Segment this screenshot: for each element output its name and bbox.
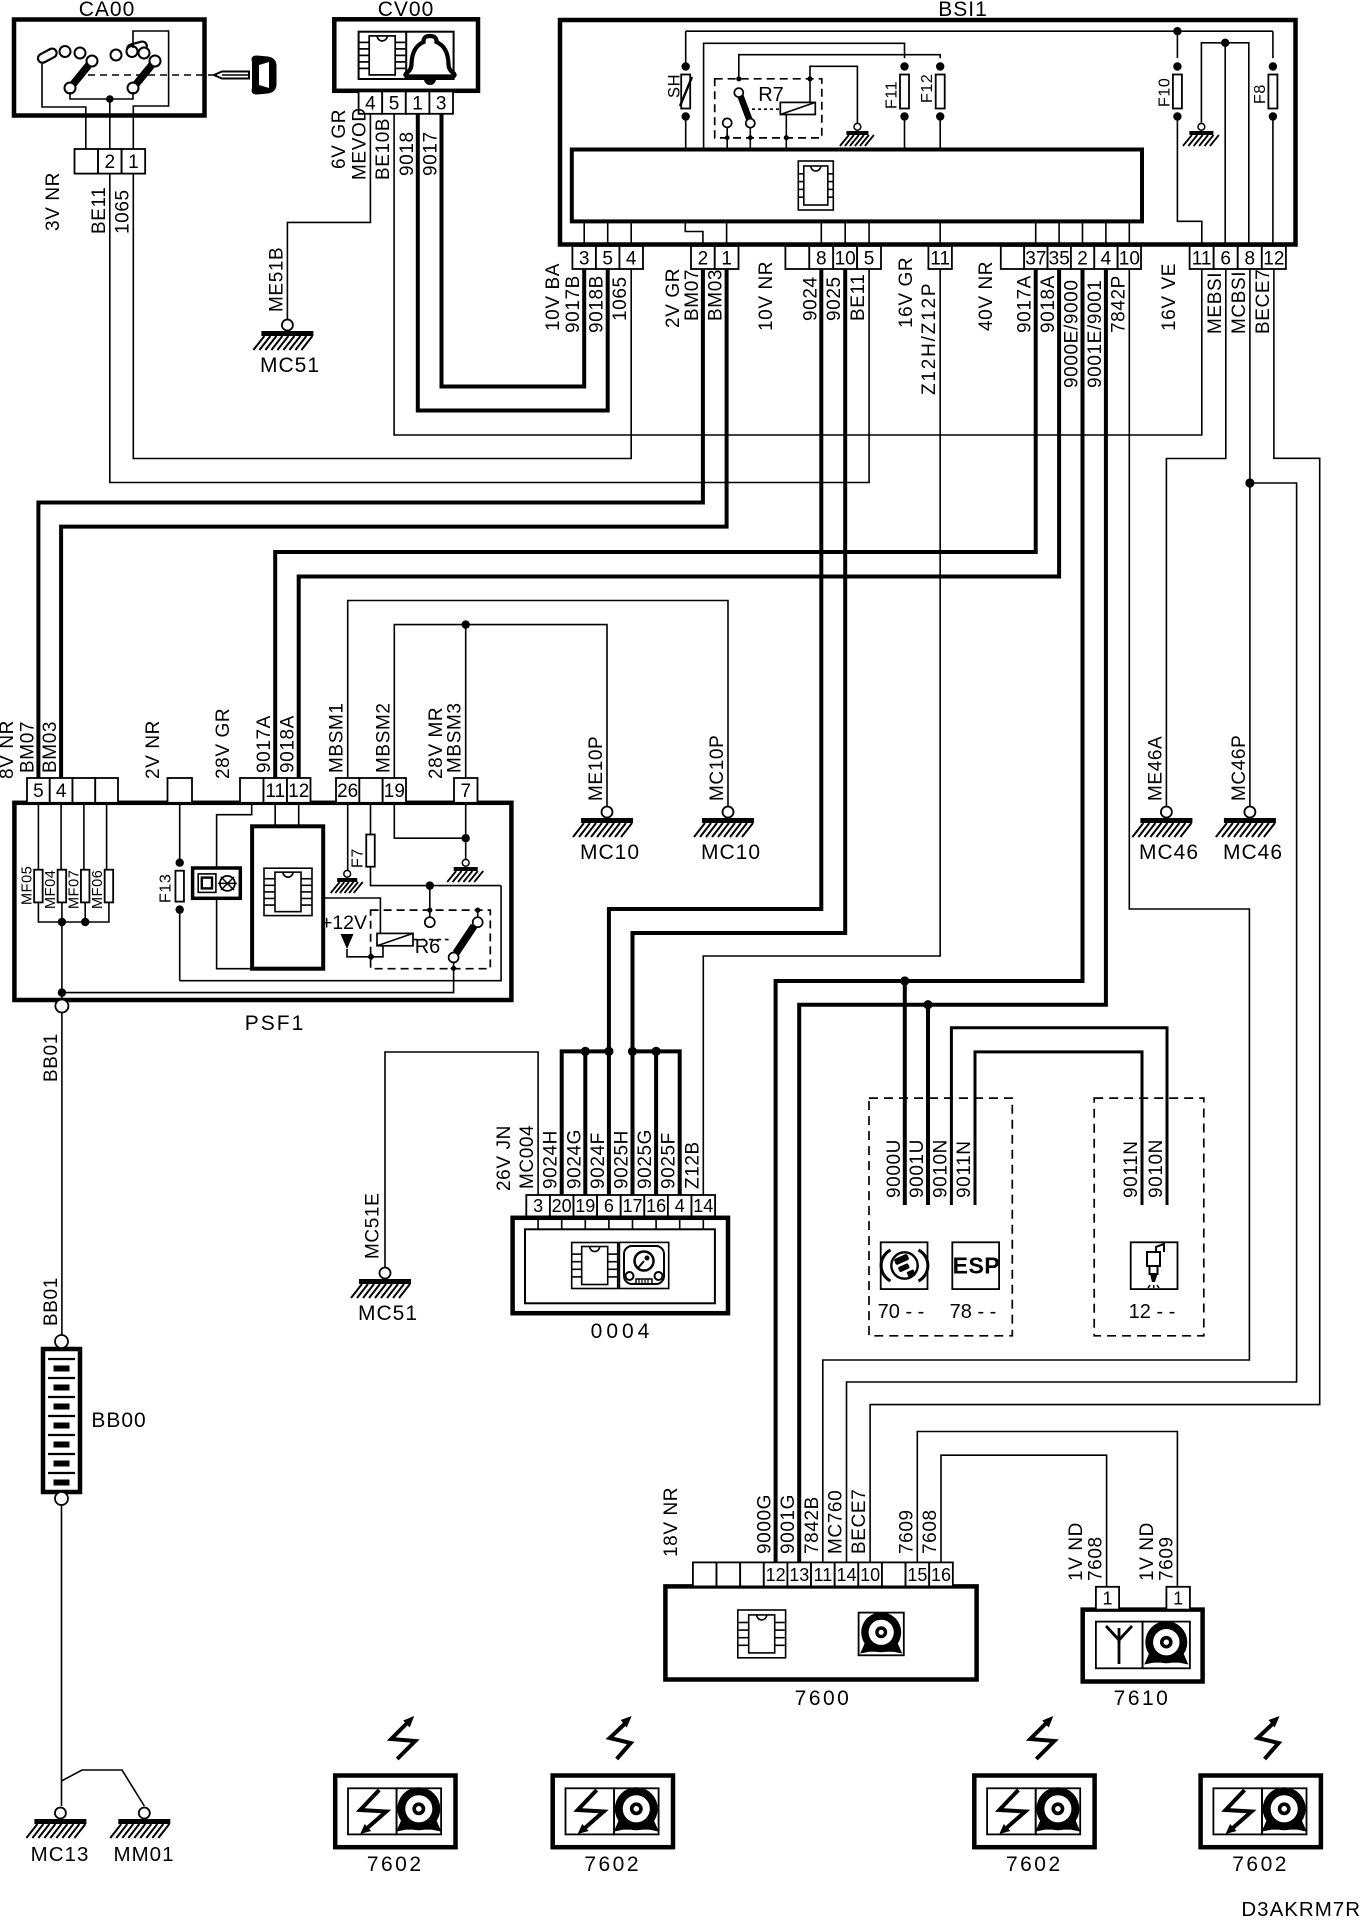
svg-text:MC51: MC51 bbox=[260, 354, 320, 377]
svg-text:1V ND: 1V ND bbox=[1137, 1522, 1158, 1581]
BSI pin stub 11 bbox=[939, 221, 941, 246]
7610 horn icon bbox=[1144, 1650, 1188, 1664]
connector PSF1 pins 26 19 bbox=[336, 778, 359, 803]
svg-text:11: 11 bbox=[814, 1565, 833, 1585]
svg-text:9025F: 9025F bbox=[659, 1132, 680, 1189]
CA00 internal wire left contact to pin bbox=[42, 64, 86, 149]
supply +12V triangle bbox=[341, 934, 354, 949]
wire MC760 MCBSI branch to 7600 pin14 bbox=[847, 483, 1297, 1562]
svg-text:ME10P: ME10P bbox=[586, 736, 607, 801]
svg-text:12: 12 bbox=[766, 1565, 786, 1585]
svg-text:CV00: CV00 bbox=[378, 0, 435, 21]
wire MEVOD CV00 pin4 to ground MC51 bbox=[287, 114, 370, 320]
wire BM07 BSI pin2 to PSF1 pin5 bbox=[38, 269, 703, 778]
wire MCBSI BSI pin8 to ground MC46P bbox=[1249, 269, 1251, 807]
svg-text:BM03: BM03 bbox=[40, 721, 61, 773]
svg-text:9017B: 9017B bbox=[563, 275, 584, 333]
component 7602 box bbox=[974, 1776, 1094, 1848]
svg-text:MF05: MF05 bbox=[20, 866, 36, 905]
svg-text:9017A: 9017A bbox=[1015, 275, 1036, 333]
svg-text:3V NR: 3V NR bbox=[43, 172, 64, 231]
wire MEBSI BSI pin6 to ground ME46A bbox=[1166, 269, 1225, 807]
svg-text:3: 3 bbox=[579, 248, 590, 269]
svg-text:78 - -: 78 - - bbox=[950, 1301, 997, 1323]
svg-text:9001E/9001: 9001E/9001 bbox=[1085, 280, 1106, 389]
svg-text:9000U: 9000U bbox=[884, 1139, 905, 1198]
R7 coil bbox=[780, 102, 815, 149]
svg-text:4: 4 bbox=[56, 781, 67, 802]
component CA00 ignition switch box bbox=[14, 20, 205, 116]
junction 9024G bbox=[581, 1047, 590, 1056]
svg-text:9011N: 9011N bbox=[1121, 1140, 1142, 1198]
svg-text:BE10B: BE10B bbox=[373, 118, 394, 180]
svg-text:9010N: 9010N bbox=[1146, 1139, 1167, 1198]
fuse F10 bbox=[1157, 31, 1202, 246]
svg-text:BB01: BB01 bbox=[41, 1277, 62, 1326]
svg-text:BM07: BM07 bbox=[682, 269, 703, 321]
svg-text:16: 16 bbox=[931, 1565, 951, 1585]
wire 9024 splice bus bbox=[562, 1051, 609, 1195]
svg-text:MF04: MF04 bbox=[43, 870, 59, 909]
svg-text:18V NR: 18V NR bbox=[661, 1487, 682, 1557]
junction pin6 tap bbox=[1221, 39, 1229, 47]
svg-text:1V ND: 1V ND bbox=[1066, 1522, 1087, 1581]
svg-text:20: 20 bbox=[552, 1196, 572, 1216]
junction MF04 bbox=[58, 918, 66, 926]
ground MC13 bbox=[26, 1808, 89, 1867]
wire BB01 upper bbox=[61, 1013, 63, 1336]
junction MBSM2/MBSM3 bbox=[462, 620, 470, 628]
svg-text:9025H: 9025H bbox=[612, 1130, 633, 1189]
CV00 inner icon box bbox=[359, 32, 454, 79]
junction BB feed bbox=[58, 988, 66, 996]
relay R6 dashed box bbox=[371, 910, 491, 969]
wire 9000E BSI pin2 to 7600 pin12 bbox=[776, 269, 1083, 1562]
svg-text:F11: F11 bbox=[884, 81, 901, 109]
wire BECE7 BSI pin12 to 7600 pin10 bbox=[870, 269, 1320, 1562]
svg-text:9001U: 9001U bbox=[907, 1139, 928, 1198]
svg-text:2: 2 bbox=[1077, 248, 1088, 269]
svg-text:9018A: 9018A bbox=[278, 715, 299, 773]
wire +12V to coil bbox=[347, 946, 383, 957]
wire 9001E BSI pin4 to 7600 pin13 bbox=[799, 269, 1106, 1562]
wire BE11 CA00 pin2 to BSI pin 5C bbox=[110, 174, 869, 483]
svg-text:70 - -: 70 - - bbox=[878, 1301, 925, 1323]
svg-text:7610: 7610 bbox=[1114, 1687, 1171, 1710]
svg-text:MC51E: MC51E bbox=[363, 1193, 384, 1259]
CV00 bell icon bbox=[405, 36, 454, 85]
connector BSI pins 11 6 8 12 bbox=[1190, 246, 1214, 269]
0004 gauge icon bbox=[619, 1242, 668, 1288]
svg-text:9011N: 9011N bbox=[954, 1140, 975, 1198]
junction MCBSI bbox=[1245, 478, 1254, 487]
svg-text:MBSM3: MBSM3 bbox=[445, 702, 466, 773]
svg-text:4: 4 bbox=[675, 1196, 685, 1216]
svg-text:MC51: MC51 bbox=[358, 1302, 418, 1325]
wire 1065 CA00 pin1 to BSI pin 4 bbox=[133, 174, 631, 459]
wire R7 coil to internal ground bbox=[810, 66, 857, 125]
svg-text:F10: F10 bbox=[1157, 78, 1174, 107]
svg-text:11: 11 bbox=[930, 248, 950, 269]
node ABS ESP dashed box bbox=[869, 1098, 1012, 1336]
wire BSI internal ground to pins 6 and 8 bbox=[1201, 43, 1248, 246]
svg-text:1: 1 bbox=[721, 248, 732, 269]
7600 horn icon bbox=[859, 1612, 904, 1655]
svg-text:1065: 1065 bbox=[112, 189, 133, 234]
wire MF fuse bus bbox=[38, 902, 109, 922]
svg-text:3: 3 bbox=[436, 93, 447, 114]
svg-text:4: 4 bbox=[1101, 248, 1112, 269]
svg-text:14: 14 bbox=[693, 1196, 713, 1216]
connector 7600 pins bbox=[693, 1562, 717, 1586]
wire F13 to R6 rail bbox=[180, 886, 501, 981]
svg-text:F13: F13 bbox=[158, 874, 175, 903]
svg-text:2V GR: 2V GR bbox=[663, 268, 684, 328]
wire R6 common contact bbox=[425, 886, 435, 928]
svg-text:1: 1 bbox=[128, 152, 139, 173]
icon box battery-lamp PSF1 bbox=[193, 868, 241, 898]
fuse F12 bbox=[919, 62, 945, 149]
svg-text:7608: 7608 bbox=[1086, 1536, 1107, 1581]
svg-text:10V BA: 10V BA bbox=[543, 263, 564, 331]
ground MC10 left bbox=[573, 807, 640, 865]
7602 horn icon bbox=[396, 1817, 441, 1832]
svg-text:BM03: BM03 bbox=[706, 269, 727, 321]
svg-text:9018A: 9018A bbox=[1038, 275, 1059, 333]
svg-text:15: 15 bbox=[907, 1565, 927, 1585]
svg-text:MC46: MC46 bbox=[1223, 841, 1283, 864]
svg-text:10: 10 bbox=[835, 248, 856, 269]
wire Z12H/Z12P BSI pin11 to 0004 pin14 bbox=[703, 269, 940, 1195]
connector CV00 pins 4 5 1 3 bbox=[359, 91, 383, 113]
7602 bolt icon bbox=[578, 1790, 604, 1834]
wire 9024 BSI pin8 to 0004 bbox=[609, 269, 821, 1195]
connector BSI pins 37 35 2 4 10 bbox=[1001, 246, 1024, 269]
wire PSF1 pin7 to internal ground bbox=[465, 803, 467, 861]
svg-text:MC10: MC10 bbox=[701, 841, 761, 864]
svg-text:6: 6 bbox=[1220, 248, 1231, 269]
BSI pin stub 1 bbox=[726, 221, 728, 246]
svg-text:MC004: MC004 bbox=[517, 1125, 538, 1189]
connector PSF1 pins 5 4 bbox=[27, 778, 50, 803]
wire F12 feed rail bbox=[739, 55, 940, 79]
wire 9017A BSI pin37 to PSF1 pin11 bbox=[275, 269, 1035, 778]
svg-text:MF07: MF07 bbox=[66, 870, 82, 909]
junction pin7 bbox=[462, 834, 470, 842]
BSI1 ECU IC icon bbox=[798, 161, 833, 210]
svg-text:R6: R6 bbox=[415, 936, 441, 958]
CA00 contact group left bbox=[36, 46, 85, 64]
svg-text:MCBSI: MCBSI bbox=[1229, 271, 1250, 334]
component BSI1 box bbox=[560, 20, 1296, 245]
svg-text:11: 11 bbox=[1192, 248, 1212, 269]
svg-text:37: 37 bbox=[1025, 248, 1046, 269]
fuse F13 bbox=[158, 803, 184, 981]
connector BSI pins 8 10 5 bbox=[785, 246, 809, 269]
svg-text:26: 26 bbox=[337, 781, 358, 802]
CV00 IC icon bbox=[369, 36, 395, 75]
junction R6 common bbox=[426, 881, 434, 889]
transponder signal bolt bbox=[391, 1716, 415, 1759]
7600 IC icon bbox=[738, 1610, 786, 1658]
svg-text:D3AKRM7R: D3AKRM7R bbox=[1241, 1898, 1361, 1920]
svg-text:BE11: BE11 bbox=[89, 187, 110, 234]
CA00 internal wire arms common to pin 2 bbox=[70, 92, 133, 99]
svg-text:MBSM1: MBSM1 bbox=[327, 702, 348, 773]
svg-text:Z12H/Z12P: Z12H/Z12P bbox=[919, 282, 940, 395]
svg-text:MC46P: MC46P bbox=[1229, 735, 1250, 801]
svg-text:3: 3 bbox=[533, 1196, 543, 1216]
wire icon box to pin bbox=[217, 803, 252, 868]
wire PSF1 pin19 to pin7 ground link bbox=[394, 803, 465, 838]
svg-text:MC760: MC760 bbox=[826, 1490, 847, 1554]
0004 inner box bbox=[525, 1229, 715, 1303]
connector 0004 pins bbox=[526, 1195, 550, 1216]
terminal PSF1 bottom bbox=[55, 1000, 68, 1013]
connector BSI pins 2 1 bbox=[691, 246, 715, 269]
CA00 internal wire right contact to pin 1 bbox=[133, 31, 169, 149]
svg-text:1: 1 bbox=[1102, 1589, 1112, 1609]
svg-text:BB00: BB00 bbox=[91, 1409, 146, 1432]
wire 9010N ABS to injection bbox=[951, 1028, 1167, 1205]
component 7602 box bbox=[1201, 1776, 1321, 1848]
battery BB00 bbox=[43, 1335, 80, 1505]
svg-text:26V JN: 26V JN bbox=[494, 1125, 515, 1191]
ground MC46 left bbox=[1132, 807, 1199, 865]
svg-text:MC46: MC46 bbox=[1139, 841, 1199, 864]
svg-text:17: 17 bbox=[622, 1196, 642, 1216]
0004 IC icon bbox=[572, 1243, 618, 1289]
wire 7842P BSI pin10 to 7600 pin11 bbox=[823, 269, 1250, 1562]
svg-text:10: 10 bbox=[1119, 248, 1140, 269]
component 7602 box bbox=[335, 1776, 455, 1848]
BSI pin stubs group E bbox=[1035, 221, 1037, 246]
junction CA00 common bbox=[106, 95, 114, 103]
svg-text:1: 1 bbox=[1173, 1589, 1183, 1609]
svg-text:PSF1: PSF1 bbox=[245, 1012, 306, 1035]
fuse F11 bbox=[884, 62, 910, 149]
connector PSF1 pin 7 bbox=[454, 778, 478, 803]
CA00 switch arm 1 bbox=[65, 56, 98, 94]
fuse MF06 bbox=[90, 803, 113, 909]
svg-text:9000G: 9000G bbox=[755, 1494, 776, 1554]
svg-text:2: 2 bbox=[698, 248, 709, 269]
svg-text:9017: 9017 bbox=[421, 131, 442, 176]
wire BM03 BSI pin1 to PSF1 pin4 bbox=[61, 269, 727, 778]
fuse MF07 bbox=[66, 803, 89, 909]
ground MC51E bbox=[351, 1268, 418, 1326]
svg-text:6: 6 bbox=[604, 1196, 614, 1216]
connector CA00 pins bbox=[75, 149, 99, 174]
svg-text:8: 8 bbox=[816, 248, 827, 269]
ground internal PSF1 right bbox=[462, 859, 469, 866]
key icon bbox=[214, 56, 277, 95]
wire 9000U to ABS box bbox=[903, 981, 907, 1205]
svg-text:0004: 0004 bbox=[591, 1320, 654, 1343]
svg-text:7609: 7609 bbox=[1156, 1536, 1177, 1581]
ground MC46 right bbox=[1216, 807, 1283, 865]
component CV00 box bbox=[334, 19, 478, 91]
fuse MF05 bbox=[20, 803, 43, 905]
wire BE10B CV00 pin5 to BSI pin 11 bbox=[394, 114, 1202, 435]
R7 switch arm bbox=[723, 76, 755, 149]
wire 7608 7600 pin16 to 7610 bbox=[941, 1455, 1107, 1587]
svg-text:9024H: 9024H bbox=[541, 1130, 562, 1189]
PSF1 IC icon bbox=[264, 868, 312, 915]
svg-text:F7: F7 bbox=[350, 848, 367, 868]
svg-text:ME46A: ME46A bbox=[1145, 736, 1166, 801]
7602 bolt icon bbox=[1226, 1790, 1252, 1834]
junction 9001U bbox=[923, 1000, 932, 1009]
ground internal BSI right bbox=[1198, 123, 1205, 130]
component 7602 box bbox=[553, 1776, 673, 1848]
connector PSF1 pins 11 12 bbox=[240, 778, 264, 803]
ground internal BSI R7 bbox=[854, 123, 861, 130]
svg-text:CA00: CA00 bbox=[79, 0, 136, 21]
svg-text:2: 2 bbox=[105, 152, 116, 173]
node injection dashed box bbox=[1094, 1098, 1204, 1336]
wire R6 switch to MF bus bbox=[62, 957, 454, 993]
wire 7609 7600 pin15 to 7610 bbox=[917, 1432, 1177, 1587]
svg-text:BB01: BB01 bbox=[41, 1033, 62, 1082]
svg-text:19: 19 bbox=[575, 1196, 595, 1216]
transponder signal bolt bbox=[1258, 1716, 1280, 1759]
7602 horn icon bbox=[1035, 1817, 1080, 1832]
wire 9017 CV00 pin3 to BSI pin 3 bbox=[442, 114, 585, 387]
svg-text:ESP: ESP bbox=[953, 1253, 1001, 1279]
svg-text:9024: 9024 bbox=[800, 276, 821, 321]
svg-text:5: 5 bbox=[864, 248, 875, 269]
component PSF1 box bbox=[14, 803, 511, 1000]
svg-text:5: 5 bbox=[389, 93, 400, 114]
svg-text:4: 4 bbox=[626, 248, 637, 269]
ground MC51 top bbox=[253, 320, 320, 378]
connector 7610 pin 1 left bbox=[1096, 1587, 1119, 1610]
svg-text:BE11: BE11 bbox=[848, 274, 869, 321]
svg-text:7602: 7602 bbox=[1232, 1853, 1289, 1876]
7602 horn icon bbox=[1262, 1817, 1307, 1832]
svg-text:MBSM2: MBSM2 bbox=[373, 702, 394, 773]
wire 9001U to ABS box bbox=[926, 1005, 930, 1205]
ground MM01 bbox=[110, 1808, 174, 1867]
fuse SH bbox=[666, 62, 693, 149]
svg-text:13: 13 bbox=[789, 1565, 809, 1585]
svg-text:9017A: 9017A bbox=[254, 715, 275, 773]
svg-text:6V GR: 6V GR bbox=[329, 109, 350, 169]
svg-text:Z12B: Z12B bbox=[682, 1141, 703, 1189]
icon injector bbox=[1131, 1242, 1178, 1289]
7610 cells bbox=[1096, 1622, 1143, 1669]
svg-text:9018: 9018 bbox=[397, 131, 418, 176]
fuse F7 bbox=[350, 803, 375, 868]
BSI1 inner ECU box bbox=[572, 150, 1142, 222]
wire MC004 0004 pin3 to ground MC51E bbox=[385, 1052, 538, 1268]
wire PSF1 pin11 to IC box bbox=[274, 803, 276, 827]
svg-text:10V NR: 10V NR bbox=[756, 261, 777, 331]
wire 9018A BSI pin35 to PSF1 pin12 bbox=[299, 269, 1059, 778]
CA00 switch arm 2 bbox=[128, 56, 161, 94]
svg-text:5: 5 bbox=[602, 248, 613, 269]
svg-text:9018B: 9018B bbox=[587, 275, 608, 333]
svg-text:+12V: +12V bbox=[321, 912, 367, 934]
svg-text:16: 16 bbox=[646, 1196, 666, 1216]
svg-text:5: 5 bbox=[33, 781, 44, 802]
ground internal PSF1 left bbox=[344, 870, 351, 877]
junction F10 tap bbox=[1173, 27, 1181, 35]
svg-text:MF06: MF06 bbox=[90, 870, 106, 909]
7602 bolt icon bbox=[999, 1790, 1025, 1834]
svg-text:40V NR: 40V NR bbox=[976, 261, 997, 331]
svg-text:12: 12 bbox=[1263, 248, 1284, 269]
component 7600 box bbox=[665, 1586, 976, 1679]
svg-text:BSI1: BSI1 bbox=[938, 0, 988, 21]
CA00 key axis dashed line bbox=[76, 74, 213, 76]
R6 switch arm bbox=[449, 908, 483, 972]
junction 9024F bbox=[604, 1047, 613, 1056]
svg-text:MC10: MC10 bbox=[580, 841, 640, 864]
wire MBSM1 PSF1 pin26 to ground MC10P bbox=[348, 601, 728, 808]
wire BB01 lower to grounds bbox=[61, 1505, 63, 1806]
svg-text:1: 1 bbox=[412, 93, 423, 114]
7602 horn icon bbox=[614, 1817, 659, 1832]
svg-text:MC10P: MC10P bbox=[707, 735, 728, 801]
icon ESP bbox=[952, 1242, 1000, 1289]
svg-text:14: 14 bbox=[836, 1565, 856, 1585]
wire 9018 CV00 pin1 to BSI pin 5 bbox=[418, 114, 608, 411]
svg-text:12 - -: 12 - - bbox=[1129, 1301, 1176, 1323]
connector BSI pins 3 5 4 bbox=[572, 246, 596, 269]
svg-text:7608: 7608 bbox=[920, 1509, 941, 1554]
svg-text:16V VE: 16V VE bbox=[1159, 263, 1180, 331]
wire icon box bottom to IC box bbox=[217, 898, 253, 968]
wire MBSM3 junction to PSF1 pin7 bbox=[465, 625, 467, 778]
junction 9025H bbox=[628, 1047, 637, 1056]
svg-text:12: 12 bbox=[288, 781, 309, 802]
wire PSF1 pin26 to internal ground bbox=[347, 803, 349, 871]
wire MBSM2 PSF1 pin19 to ground ME10P bbox=[394, 625, 607, 807]
svg-text:28V GR: 28V GR bbox=[213, 708, 234, 779]
BSI pin stubs group C bbox=[820, 221, 822, 246]
svg-text:9024F: 9024F bbox=[588, 1132, 609, 1189]
svg-text:35: 35 bbox=[1049, 248, 1070, 269]
BSI pin stubs group A bbox=[583, 221, 585, 246]
wire 9011N ABS to injection bbox=[975, 1052, 1142, 1205]
wire F7 to R6 rail bbox=[371, 867, 502, 886]
svg-text:9025G: 9025G bbox=[635, 1129, 656, 1189]
svg-text:ME51B: ME51B bbox=[266, 247, 287, 312]
svg-text:7609: 7609 bbox=[896, 1509, 917, 1554]
svg-text:MM01: MM01 bbox=[114, 1843, 175, 1866]
wire BSI top rail from SH to F8 bbox=[685, 31, 687, 66]
CA00 contact group middle bbox=[111, 41, 150, 61]
svg-text:BECE7: BECE7 bbox=[849, 1489, 870, 1554]
svg-text:16V GR: 16V GR bbox=[896, 257, 917, 328]
0004 pin stubs bbox=[537, 1216, 539, 1229]
svg-text:F12: F12 bbox=[919, 74, 936, 103]
fuse MF04 bbox=[43, 803, 66, 909]
transponder signal bolt bbox=[610, 1716, 632, 1759]
svg-text:9024G: 9024G bbox=[564, 1129, 585, 1189]
fuse F8 bbox=[1252, 31, 1278, 246]
7602 bolt icon bbox=[360, 1790, 386, 1834]
wire PSF1 pin12 to IC box bbox=[298, 803, 300, 827]
svg-text:9025: 9025 bbox=[824, 276, 845, 321]
connector PSF1 pin 2V bbox=[168, 778, 193, 803]
component 7610 box bbox=[1083, 1610, 1203, 1682]
ground MC10 right bbox=[694, 807, 761, 865]
svg-text:7842B: 7842B bbox=[802, 1496, 823, 1554]
PSF1 inner IC box bbox=[252, 826, 323, 968]
